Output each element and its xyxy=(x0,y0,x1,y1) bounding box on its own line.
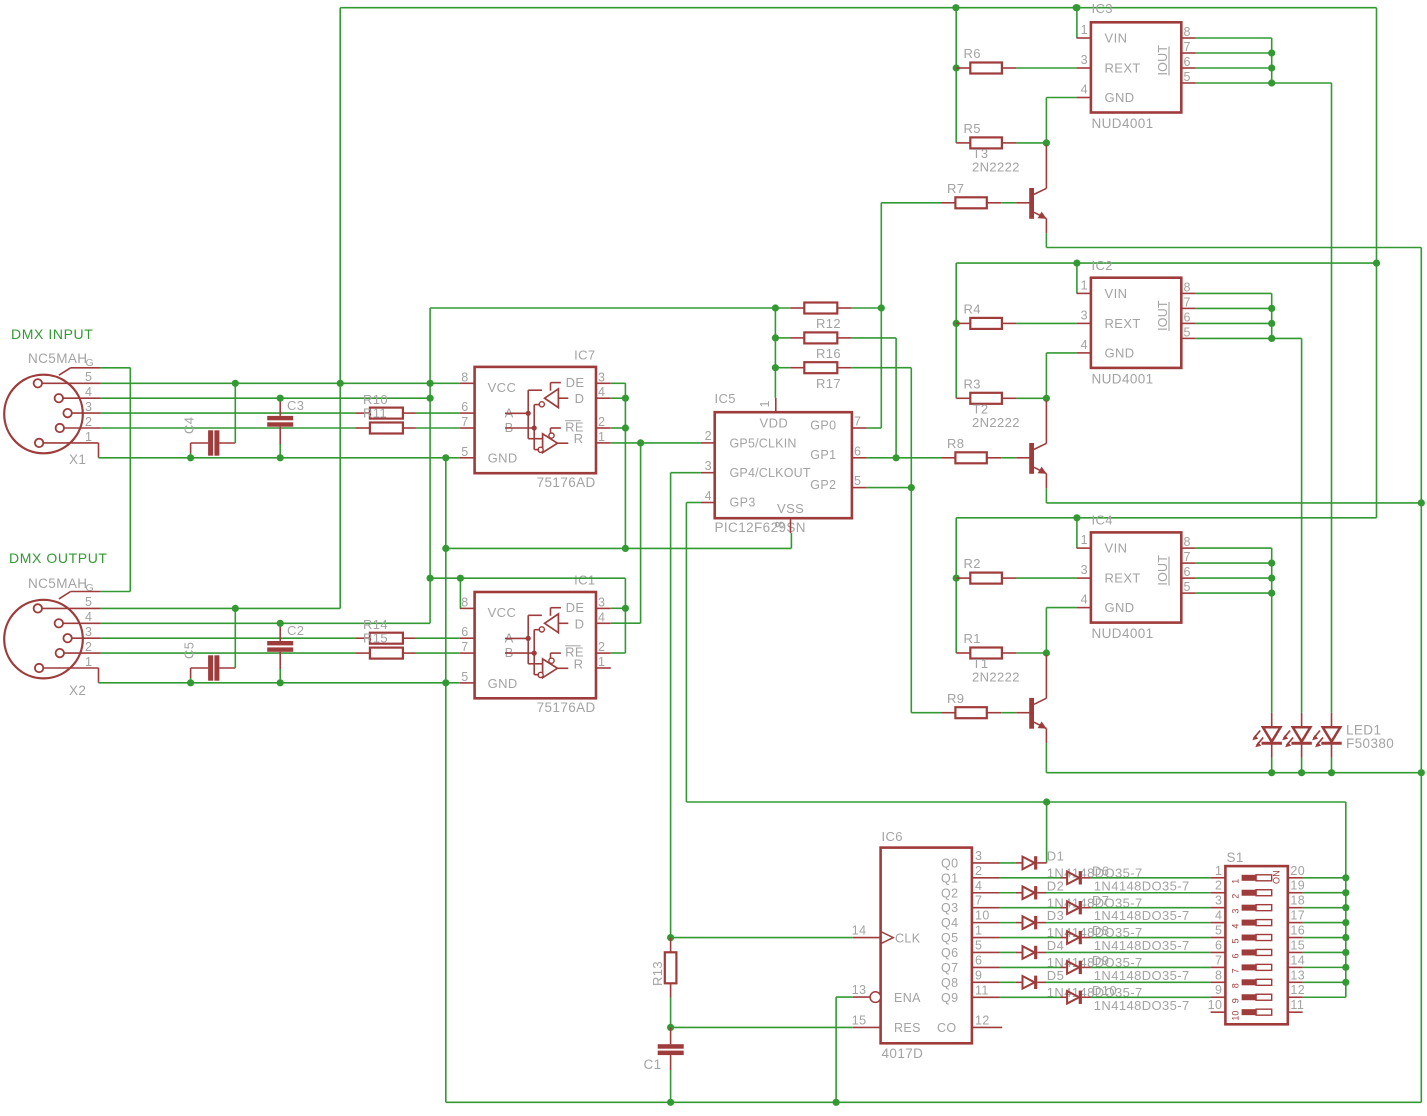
svg-text:3: 3 xyxy=(1215,894,1222,908)
wire LED3 feed vertical xyxy=(1331,83,1333,713)
pin X1-1 xyxy=(43,442,98,444)
svg-text:D10: D10 xyxy=(1092,983,1117,998)
node IC7 RE junction xyxy=(611,427,626,429)
svg-text:R: R xyxy=(574,656,584,671)
svg-text:10: 10 xyxy=(975,909,990,923)
pin S1-11 xyxy=(1288,1011,1303,1013)
pin IC4-8 IOUT xyxy=(1181,547,1195,549)
wire R3 to collector node xyxy=(1016,397,1046,399)
svg-text:GND: GND xyxy=(1105,345,1135,360)
svg-text:CO: CO xyxy=(937,1021,957,1035)
svg-text:VIN: VIN xyxy=(1105,541,1128,556)
pin IC1-4 xyxy=(596,622,611,624)
svg-text:VIN: VIN xyxy=(1105,31,1128,46)
pin IC1-7 xyxy=(460,652,475,654)
svg-text:15: 15 xyxy=(1290,938,1305,952)
svg-text:VCC: VCC xyxy=(488,605,517,620)
pin S1-10 xyxy=(1211,1011,1226,1013)
diode D6 1N4148 xyxy=(1061,877,1068,879)
wire IC3 left drop xyxy=(955,8,957,143)
svg-text:4: 4 xyxy=(1231,924,1241,929)
svg-text:R8: R8 xyxy=(947,436,964,451)
pin IC7-8 xyxy=(460,382,475,384)
resistor R4 xyxy=(956,322,970,324)
svg-text:4: 4 xyxy=(598,610,605,624)
node LED rail / right vertical xyxy=(1418,769,1425,776)
svg-text:6: 6 xyxy=(1184,565,1191,579)
svg-text:GND: GND xyxy=(488,451,518,466)
pin IC6 Q7 xyxy=(972,966,1000,968)
svg-text:IC2: IC2 xyxy=(1092,258,1113,273)
pin X2-4 xyxy=(63,622,101,624)
resistor R7 xyxy=(941,202,955,204)
svg-text:RES: RES xyxy=(894,1021,921,1035)
svg-text:15: 15 xyxy=(852,1013,867,1027)
svg-text:IOUT: IOUT xyxy=(1156,555,1170,586)
svg-text:4: 4 xyxy=(1081,338,1088,352)
wire IC3 VIN riser xyxy=(1076,8,1078,38)
svg-text:7: 7 xyxy=(1184,295,1191,309)
pin S1-8 xyxy=(1211,981,1226,983)
pin S1-5 xyxy=(1211,937,1226,939)
svg-text:Q8: Q8 xyxy=(941,976,958,990)
svg-text:2: 2 xyxy=(1215,879,1222,893)
pin IC5-8 VSS xyxy=(790,518,792,533)
wire D5 to S1 xyxy=(1046,981,1211,983)
node IC4 collector junction xyxy=(1043,649,1050,656)
svg-text:3: 3 xyxy=(975,849,982,863)
resistor R16 xyxy=(775,337,790,339)
wire RES row xyxy=(671,1026,853,1028)
svg-text:9: 9 xyxy=(1231,998,1241,1003)
node GP1/R16 riser junction xyxy=(893,454,900,461)
node R12 left junction xyxy=(772,304,779,311)
wire T2 emitter to GND row xyxy=(1045,488,1047,503)
wire IC4 GND down to transistor collector node xyxy=(1046,607,1076,609)
resistor R12 xyxy=(790,307,804,309)
svg-text:3: 3 xyxy=(705,459,712,473)
pin X1-3 xyxy=(72,412,101,414)
svg-text:6: 6 xyxy=(854,444,861,458)
pin IC3-4 GND xyxy=(1077,97,1091,99)
wire D4 to S1 xyxy=(1046,951,1211,953)
wire IC3 IOUT 7 xyxy=(1196,52,1272,54)
pin IC6 CLK xyxy=(853,937,881,939)
pin IC5-2 GP5 xyxy=(701,442,715,444)
node IC4 REXT/R junction xyxy=(953,575,960,582)
svg-text:X1: X1 xyxy=(69,452,86,467)
pin IC4-1 VIN xyxy=(1077,547,1091,549)
IC1 internal receiver buffer xyxy=(543,659,558,678)
wire C4 riser to VCC row xyxy=(234,383,236,443)
pin IC6 Q0 xyxy=(972,862,1000,864)
node GND tie left xyxy=(442,545,449,552)
svg-text:F50380: F50380 xyxy=(1346,736,1394,751)
wire X2-5 row xyxy=(101,607,341,609)
wire X2-4 row xyxy=(101,622,431,624)
svg-text:6: 6 xyxy=(1231,953,1241,958)
svg-text:2N2222: 2N2222 xyxy=(972,415,1020,430)
wire R9 to base xyxy=(1001,712,1016,714)
wire VCC left riser xyxy=(339,8,341,384)
svg-text:2: 2 xyxy=(598,640,605,654)
node GP5 riser junction xyxy=(637,439,644,446)
diode D8 1N4148 xyxy=(1061,937,1068,939)
wire X1-5 VCC row xyxy=(101,382,460,384)
wire D1 riser xyxy=(1046,802,1048,863)
pin S1-17 xyxy=(1288,922,1303,924)
wire IC3 IOUT 6 xyxy=(1196,67,1272,69)
svg-text:Q3: Q3 xyxy=(941,901,958,915)
svg-text:1N4148DO35-7: 1N4148DO35-7 xyxy=(1094,878,1190,893)
svg-text:IC3: IC3 xyxy=(1092,1,1113,16)
pin IC6 CO xyxy=(972,1026,1002,1028)
pin IC7-6 xyxy=(460,412,475,414)
node X1-5/riser junction xyxy=(337,380,344,387)
wire X1-3 row to R10 xyxy=(101,412,356,414)
svg-text:3: 3 xyxy=(1231,909,1241,914)
IC7 internal receiver buffer xyxy=(543,434,558,453)
wire S1 pin 17 to riser xyxy=(1303,922,1346,924)
wire GP3 horizontal rail xyxy=(686,801,1345,803)
svg-text:IOUT: IOUT xyxy=(1156,45,1170,76)
svg-text:R1: R1 xyxy=(964,631,981,646)
wire R7 to base xyxy=(1001,202,1016,204)
svg-text:5: 5 xyxy=(1231,939,1241,944)
transistor T1 2N2222 xyxy=(1029,698,1034,729)
pin IC3-6 IOUT xyxy=(1181,67,1195,69)
svg-text:2N2222: 2N2222 xyxy=(972,670,1020,685)
svg-text:GND: GND xyxy=(1105,600,1135,615)
svg-text:ON: ON xyxy=(1272,870,1282,884)
svg-text:5: 5 xyxy=(1184,70,1191,84)
wire VDD riser xyxy=(774,308,776,398)
wire IC2 left drop xyxy=(955,263,957,398)
wire GP0 to riser xyxy=(867,427,882,429)
node GND2/C5 xyxy=(187,679,194,686)
resistor R9 xyxy=(941,712,955,714)
svg-text:7: 7 xyxy=(1184,40,1191,54)
wire S1 pin 16 to riser xyxy=(1303,937,1346,939)
pin IC4-3 REXT xyxy=(1077,577,1091,579)
resistor R11 xyxy=(355,427,370,429)
wire IC2 VIN riser xyxy=(1076,263,1078,293)
node IC1 VCC riser junction xyxy=(457,575,464,582)
svg-text:Q5: Q5 xyxy=(941,931,958,945)
node T2 emitter row to right vertical xyxy=(1418,499,1425,506)
node VDD/R16 xyxy=(772,334,779,341)
resistor R13 xyxy=(670,938,672,953)
wire T3 collector xyxy=(1045,145,1047,188)
svg-text:5: 5 xyxy=(85,595,92,609)
wire D6 to S1 xyxy=(1091,877,1211,879)
svg-text:VIN: VIN xyxy=(1105,286,1128,301)
svg-text:1: 1 xyxy=(1231,879,1241,884)
svg-text:Q7: Q7 xyxy=(941,961,958,975)
svg-text:GP2: GP2 xyxy=(810,478,836,492)
wire GP4 riser xyxy=(670,473,672,938)
pin S1-6 xyxy=(1211,951,1226,953)
wire IC4 left drop xyxy=(955,518,957,653)
wire IC4 IOUT down to LED1 xyxy=(1271,593,1273,713)
wire D7 to S1 xyxy=(1091,907,1211,909)
pin IC2-6 IOUT xyxy=(1181,322,1195,324)
svg-text:VCC: VCC xyxy=(488,380,517,395)
LED LED1 element 1 xyxy=(1271,713,1273,727)
svg-text:REXT: REXT xyxy=(1105,61,1141,76)
node D1 riser junction xyxy=(1043,798,1050,805)
transistor T3 2N2222 xyxy=(1029,188,1034,219)
svg-text:8: 8 xyxy=(461,370,468,384)
svg-text:5: 5 xyxy=(975,938,982,952)
svg-text:1: 1 xyxy=(598,655,605,669)
node IC4 IOUT ties xyxy=(1268,560,1275,567)
wire X2-3 row to R14 xyxy=(101,637,356,639)
pin IC5-4 GP3 xyxy=(701,502,715,504)
wire IC3 IOUT to LED3 feed xyxy=(1272,82,1332,84)
wire IC4 IOUT 5 xyxy=(1196,592,1272,594)
wire VCC riser X1row5 to X2row5 xyxy=(339,383,341,608)
pin IC5-1 VDD xyxy=(775,398,777,412)
pin IC7-7 xyxy=(460,427,475,429)
svg-text:GP4/CLKOUT: GP4/CLKOUT xyxy=(730,466,811,480)
svg-text:1N4148DO35-7: 1N4148DO35-7 xyxy=(1094,908,1190,923)
IC IC6 4017 body xyxy=(881,848,972,1044)
node ENA/GND rail xyxy=(833,1099,840,1106)
svg-text:5: 5 xyxy=(461,445,468,459)
node IC3 VIN riser junction xyxy=(1073,4,1080,11)
pin IC2-3 REXT xyxy=(1077,322,1091,324)
svg-text:Q1: Q1 xyxy=(941,871,958,885)
resistor R5 xyxy=(956,142,970,144)
node GND2/C2 xyxy=(277,679,284,686)
pin IC7-2 xyxy=(596,427,611,429)
transistor T2 2N2222 xyxy=(1029,443,1034,474)
node GP2/R17 riser junction xyxy=(908,484,915,491)
pin IC1-6 xyxy=(460,637,475,639)
capacitor C3 xyxy=(267,416,293,420)
resistor R6 xyxy=(956,67,970,69)
pin IC1-8 xyxy=(460,607,475,609)
wire R12 row from VCC vertical xyxy=(430,307,790,309)
wire VCC top rail xyxy=(340,7,1376,9)
pin IC7-3 xyxy=(596,382,611,384)
wire GP2 riser down to R9 xyxy=(910,368,912,713)
svg-text:5: 5 xyxy=(85,370,92,384)
wire R16 to GP1 xyxy=(852,337,897,339)
svg-text:1: 1 xyxy=(598,430,605,444)
svg-text:1: 1 xyxy=(758,400,772,407)
wire T2 emitter GND row xyxy=(1046,502,1421,504)
wire D2 to S1 xyxy=(1046,892,1211,894)
node X2-5/C5 junction xyxy=(232,605,239,612)
svg-text:8: 8 xyxy=(1184,25,1191,39)
diode D7 1N4148 xyxy=(1061,907,1068,909)
wire R6 to REXT xyxy=(1016,67,1076,69)
wire GP3 riser down xyxy=(685,503,687,803)
svg-text:3: 3 xyxy=(85,400,92,414)
node GND/IC7 junction xyxy=(442,454,449,461)
wire Q8 to D5 xyxy=(1000,981,1016,983)
svg-text:VSS: VSS xyxy=(777,501,804,516)
svg-text:D7: D7 xyxy=(1092,893,1109,908)
node IC1 pin3 junction xyxy=(611,607,626,609)
svg-text:R11: R11 xyxy=(363,406,387,421)
svg-text:R2: R2 xyxy=(964,556,981,571)
wire D9 to S1 xyxy=(1091,966,1211,968)
wire ENA row xyxy=(836,996,853,998)
diode D9 1N4148 xyxy=(1061,966,1068,968)
svg-text:GP0: GP0 xyxy=(810,418,836,432)
svg-text:3: 3 xyxy=(1081,563,1088,577)
pin IC3-3 REXT xyxy=(1077,67,1091,69)
svg-text:Q0: Q0 xyxy=(941,856,958,870)
pin IC6 Q9 xyxy=(972,996,1000,998)
wire R17 to GP2 riser xyxy=(852,367,912,369)
svg-text:7: 7 xyxy=(975,894,982,908)
svg-text:2: 2 xyxy=(85,415,92,429)
pin S1-18 xyxy=(1288,907,1303,909)
svg-text:D: D xyxy=(575,616,585,631)
svg-text:3: 3 xyxy=(598,370,605,384)
wire X1 shell to X2 shell xyxy=(101,367,131,369)
svg-text:6: 6 xyxy=(461,400,468,414)
svg-text:X2: X2 xyxy=(69,683,86,698)
svg-text:C3: C3 xyxy=(287,398,304,413)
wire S1 pin 13 to riser xyxy=(1303,981,1346,983)
pin S1-1 xyxy=(1211,877,1226,879)
wire S1 riser xyxy=(1345,802,1347,997)
svg-text:4: 4 xyxy=(85,385,92,399)
wire S1 pin 15 to riser xyxy=(1303,951,1346,953)
pin IC3-1 VIN xyxy=(1077,37,1091,39)
pin IC5-5 GP2 xyxy=(852,487,867,489)
svg-text:6: 6 xyxy=(1215,938,1222,952)
wire GP0 riser up to R7 xyxy=(880,203,882,428)
svg-text:3: 3 xyxy=(85,625,92,639)
wire D1 to riser xyxy=(1045,862,1048,864)
svg-text:D9: D9 xyxy=(1092,953,1109,968)
svg-text:1: 1 xyxy=(1081,23,1088,37)
svg-text:8: 8 xyxy=(1215,968,1222,982)
svg-text:D5: D5 xyxy=(1047,968,1064,983)
svg-text:4: 4 xyxy=(1215,909,1222,923)
svg-text:2N2222: 2N2222 xyxy=(972,160,1020,175)
svg-text:R9: R9 xyxy=(947,691,964,706)
wire S1 pin 18 to riser xyxy=(1303,907,1346,909)
pin IC6 Q6 xyxy=(972,951,1000,953)
wire GND vertical xyxy=(445,458,447,1103)
svg-text:REXT: REXT xyxy=(1105,316,1141,331)
svg-text:75176AD: 75176AD xyxy=(537,700,596,715)
IC IC4 NUD4001 body xyxy=(1091,532,1181,622)
pin IC6 Q8 xyxy=(972,981,1000,983)
svg-text:8: 8 xyxy=(1231,983,1241,988)
pin IC2-8 IOUT xyxy=(1181,292,1195,294)
svg-text:R15: R15 xyxy=(363,631,388,646)
wire GP5 riser to IC1 D xyxy=(640,443,642,623)
wire T1 collector xyxy=(1045,655,1047,698)
pin IC2-4 GND xyxy=(1077,352,1091,354)
pin S1-14 xyxy=(1288,966,1303,968)
svg-text:4: 4 xyxy=(975,879,982,893)
pin S1-7 xyxy=(1211,966,1226,968)
pin IC5-7 GP0 xyxy=(852,427,867,429)
pin IC4-5 IOUT xyxy=(1181,592,1195,594)
wire R8 to base xyxy=(1001,457,1016,459)
pin IC2-1 VIN xyxy=(1077,292,1091,294)
pin IC4-6 IOUT xyxy=(1181,577,1195,579)
svg-text:R7: R7 xyxy=(947,181,964,196)
svg-text:14: 14 xyxy=(852,924,867,938)
node IC2 IOUT ties xyxy=(1268,305,1275,312)
svg-text:IC1: IC1 xyxy=(574,573,595,588)
svg-text:6: 6 xyxy=(1184,55,1191,69)
svg-text:4: 4 xyxy=(1081,593,1088,607)
pin IC3-7 IOUT xyxy=(1181,52,1195,54)
svg-text:D6: D6 xyxy=(1092,863,1109,878)
wire IC4 IOUT tie vertical xyxy=(1271,548,1273,593)
diode D3 1N4148 xyxy=(1016,922,1023,924)
svg-text:1N4148DO35-7: 1N4148DO35-7 xyxy=(1094,998,1190,1013)
svg-text:8: 8 xyxy=(461,595,468,609)
pin IC6 ENA with bubble xyxy=(853,996,870,998)
svg-text:75176AD: 75176AD xyxy=(537,475,596,490)
wire Q2 to D2 xyxy=(1000,892,1016,894)
svg-text:4: 4 xyxy=(1081,83,1088,97)
svg-text:7: 7 xyxy=(1231,968,1241,973)
wire R15 to IC1 B xyxy=(416,652,460,654)
pin X1-5 xyxy=(42,382,101,384)
svg-text:R17: R17 xyxy=(816,376,841,391)
pin S1-9 xyxy=(1211,996,1226,998)
wire IC7 R output to IC5 GP5 xyxy=(611,442,701,444)
wire IC2 IOUT 7 xyxy=(1196,307,1272,309)
pin IC3-8 IOUT xyxy=(1181,37,1195,39)
capacitor C5 xyxy=(208,655,213,680)
wire IC2 IOUT 6 xyxy=(1196,322,1272,324)
wire X2-2 row to R15 xyxy=(101,652,356,654)
wire X1 GND row xyxy=(99,457,460,459)
pin S1-13 xyxy=(1288,981,1303,983)
wire IC2 IOUT tie vertical xyxy=(1271,293,1273,338)
svg-text:GND: GND xyxy=(1105,90,1135,105)
wire IC3 IOUT 8 xyxy=(1196,37,1272,39)
pin S1-15 xyxy=(1288,951,1303,953)
wire IC2 GND down to transistor collector node xyxy=(1046,352,1076,354)
svg-text:PIC12F629SN: PIC12F629SN xyxy=(715,520,806,535)
svg-text:NUD4001: NUD4001 xyxy=(1092,626,1154,641)
wire IC2 IOUT 5 xyxy=(1196,337,1272,339)
pin S1-3 xyxy=(1211,907,1226,909)
svg-text:VDD: VDD xyxy=(760,416,789,431)
pin IC2-7 IOUT xyxy=(1181,307,1195,309)
IC IC3 NUD4001 body xyxy=(1091,22,1181,112)
wire IC3 IOUT 5 xyxy=(1196,82,1272,84)
IC1 internal driver buffer xyxy=(545,614,559,633)
pin S1-20 xyxy=(1288,877,1303,879)
svg-text:9: 9 xyxy=(975,968,982,982)
wire R10 to IC7 A xyxy=(416,412,460,414)
resistor R2 xyxy=(956,577,970,579)
svg-text:GND: GND xyxy=(488,676,518,691)
svg-text:DE: DE xyxy=(566,600,585,615)
LED LED1 element 3 xyxy=(1331,713,1333,727)
svg-text:10: 10 xyxy=(1231,1011,1241,1021)
wire LED cathode rail xyxy=(1046,772,1421,774)
svg-text:2: 2 xyxy=(598,415,605,429)
wire IC4 IOUT 6 xyxy=(1196,577,1272,579)
